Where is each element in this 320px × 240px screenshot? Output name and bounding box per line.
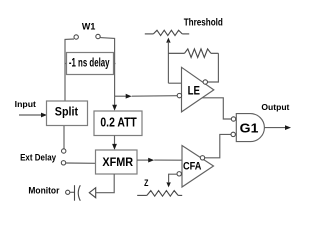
block XFMR bbox=[96, 150, 138, 174]
wiper arrow threshold bbox=[166, 38, 170, 43]
wire CFA output to G1 bbox=[205, 134, 231, 157]
comparator LE bbox=[182, 67, 214, 112]
wire Split bottom to ext-delay switch bbox=[63, 126, 65, 149]
switch Ext Delay bottom contact bbox=[61, 161, 65, 165]
svg-text:W1: W1 bbox=[82, 22, 96, 33]
wire monitor stub bbox=[70, 191, 75, 193]
svg-text:Split: Split bbox=[55, 105, 78, 119]
delay box ticks bbox=[65, 63, 116, 65]
svg-text:Monitor: Monitor bbox=[28, 185, 60, 195]
svg-text:G1: G1 bbox=[240, 120, 259, 135]
node monitor connector bbox=[66, 190, 70, 194]
node LE input pin bbox=[177, 93, 181, 97]
wire CFA gain to Z pot bbox=[169, 174, 178, 182]
svg-text:-1 ns delay: -1 ns delay bbox=[69, 56, 110, 70]
potentiometer Z bbox=[137, 194, 147, 196]
switch W1 right contact bbox=[96, 34, 100, 38]
resistor LE feedback bbox=[168, 52, 184, 54]
svg-text:Z: Z bbox=[144, 178, 149, 188]
wire feedback down to LE output node bbox=[208, 53, 219, 82]
block Split bbox=[47, 101, 88, 126]
gate G1 bbox=[236, 114, 264, 142]
buffer monitor triangle bbox=[89, 188, 95, 198]
svg-text:Threshold: Threshold bbox=[184, 18, 223, 29]
svg-text:Input: Input bbox=[15, 99, 36, 109]
wire LE output to G1 bbox=[202, 98, 231, 119]
node G1 lower input bbox=[231, 132, 235, 136]
svg-text:CFA: CFA bbox=[183, 160, 202, 172]
capacitor straight plate bbox=[74, 185, 76, 201]
wire input arrow bbox=[19, 114, 42, 116]
node CFA output pin bbox=[200, 156, 204, 160]
block 0.2 ATT bbox=[94, 111, 142, 136]
wire threshold into LE bbox=[168, 82, 181, 84]
node G1 upper input bbox=[231, 117, 235, 121]
node CFA gain pin bbox=[177, 172, 181, 176]
delay box -1 ns delay bbox=[67, 53, 114, 75]
svg-text:Output: Output bbox=[261, 102, 289, 112]
wire W1 left lead bbox=[65, 39, 74, 101]
wire buffer to XFMR bottom bbox=[96, 174, 115, 193]
amplifier CFA bbox=[182, 146, 214, 188]
wire XFMR to CFA bbox=[137, 159, 149, 161]
wire W1 right lead bbox=[100, 38, 114, 97]
node LE feedback pin bbox=[203, 80, 207, 84]
wire branch to LE input bbox=[115, 95, 127, 97]
svg-text:Ext Delay: Ext Delay bbox=[20, 153, 57, 163]
wire ATT to XFMR arrow bbox=[114, 136, 116, 145]
wire rail into 0.2 ATT bbox=[114, 96, 116, 105]
wire output arrow bbox=[264, 127, 285, 129]
switch Ext Delay top contact bbox=[62, 149, 66, 153]
svg-text:XFMR: XFMR bbox=[102, 155, 133, 169]
capacitor curved plate bbox=[78, 185, 80, 201]
svg-text:LE: LE bbox=[188, 83, 200, 97]
svg-text:0.2 ATT: 0.2 ATT bbox=[100, 115, 137, 129]
potentiometer threshold bbox=[145, 33, 154, 35]
wire ext-delay to XFMR bbox=[66, 162, 96, 164]
switch W1 left contact bbox=[74, 35, 78, 39]
